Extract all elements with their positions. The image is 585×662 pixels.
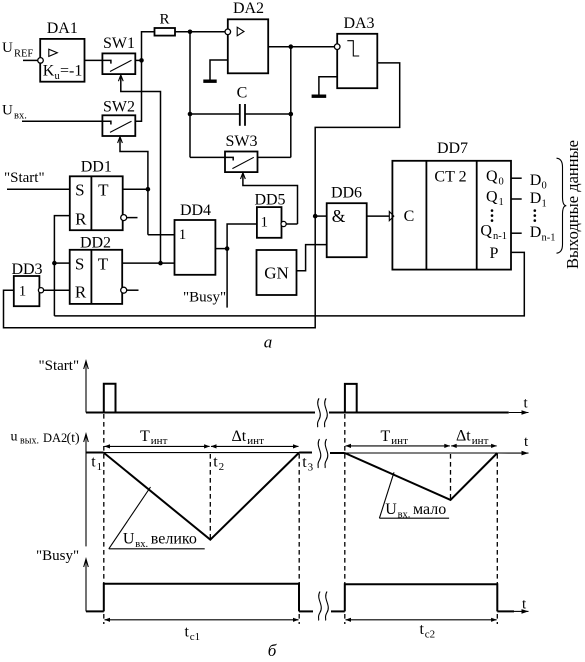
svg-text:T: T — [140, 428, 150, 445]
svg-text:"Start": "Start" — [4, 170, 45, 186]
Busy axis vertical — [85, 560, 87, 611]
wire DD1 T output to node E — [123, 188, 148, 190]
wire SW1 control from DD2 T output — [121, 76, 161, 264]
DD3 output inversion circle — [38, 288, 43, 293]
DD7 pin Qn-1 label — [480, 223, 507, 243]
svg-text:GN: GN — [264, 264, 289, 283]
SW2 contact stub — [102, 121, 111, 124]
SW3 blade diagonal — [232, 157, 253, 168]
DD7 ellipsis dots inside — [491, 209, 494, 222]
SW1 contact stub — [102, 60, 111, 63]
annotation underline veliko — [109, 548, 205, 550]
Start axis break symbol — [317, 398, 327, 427]
svg-text:DA3: DA3 — [343, 15, 374, 32]
svg-text:D: D — [530, 224, 542, 241]
svg-text:Выходные данные: Выходные данные — [563, 140, 582, 269]
u waveform triangle 1 (U_vx veliko) — [104, 453, 300, 540]
gate DD3 box — [14, 276, 40, 306]
wire node B down to capacitor C — [189, 32, 191, 158]
DD1 inverted output stub — [127, 217, 138, 219]
svg-text:SW1: SW1 — [103, 35, 135, 52]
Busy pulse 2 — [345, 584, 498, 611]
svg-text:Δt: Δt — [456, 428, 471, 445]
svg-text:3: 3 — [308, 462, 314, 474]
svg-text:C: C — [237, 85, 248, 102]
wire node C down to capacitor C — [290, 47, 292, 158]
Busy pulse 1 — [104, 584, 299, 612]
wire DD4 output to node H — [215, 248, 227, 250]
Start waveform baseline right — [329, 412, 509, 414]
wire DD1 R input from feedback bus — [54, 216, 69, 316]
dashed line t2 — [209, 454, 211, 540]
svg-text:DD6: DD6 — [331, 185, 362, 202]
svg-text:инт: инт — [247, 435, 264, 447]
dt_int label period 1 — [232, 428, 265, 447]
annotation U_vx veliko — [123, 531, 197, 550]
switch SW3 box — [225, 152, 258, 173]
wire SW2 control from DD1 T output — [120, 137, 148, 234]
svg-text:=-1: =-1 — [60, 62, 82, 79]
wire SW3 control from DD5 output — [243, 173, 298, 224]
time label t3 — [302, 454, 313, 474]
svg-text:D: D — [530, 190, 542, 207]
DA3 threshold symbol — [347, 41, 359, 56]
svg-text:R: R — [159, 12, 169, 28]
svg-text:S: S — [75, 254, 84, 273]
wire DA3 second input to ground — [319, 77, 337, 95]
svg-text:CT 2: CT 2 — [434, 168, 466, 185]
node H junction dot — [225, 246, 230, 251]
Busy baseline before pulse 2 — [331, 610, 345, 612]
wire Busy output stub — [226, 249, 228, 308]
DD1 divider — [90, 176, 92, 230]
node D junction dot on DA3 path — [313, 214, 318, 219]
svg-text:t: t — [213, 454, 218, 471]
svg-text:DD4: DD4 — [180, 202, 211, 219]
u waveform triangle 2 (U_vx malo) — [345, 453, 498, 500]
u axis vertical — [85, 435, 87, 546]
svg-text:R: R — [75, 209, 87, 228]
T_int measure arrow period 2 — [345, 444, 450, 448]
ground symbol at DA2 — [203, 79, 216, 82]
dt_int measure arrow period 1 — [211, 444, 299, 448]
op-amp DA2 box — [228, 19, 268, 73]
wire SW2 output up to node A — [135, 60, 141, 121]
svg-text:вх.: вх. — [14, 111, 27, 122]
wire SW3 to capacitor right — [258, 156, 291, 158]
node D0 label — [530, 172, 547, 192]
DA1 gain value label Ku=-1 — [43, 62, 83, 82]
svg-text:u: u — [11, 430, 18, 445]
svg-text:инт: инт — [391, 435, 408, 447]
t_c1 label — [185, 624, 201, 643]
wire U_REF to DA1 input — [23, 59, 38, 61]
svg-text:"Busy": "Busy" — [183, 290, 226, 306]
svg-text:а: а — [264, 333, 273, 352]
svg-text:велико: велико — [151, 531, 197, 548]
svg-text:DD7: DD7 — [437, 140, 468, 157]
u time axis thin line section 2 — [330, 452, 497, 454]
dashed line t5 — [450, 454, 452, 500]
wire Qn-1 output stub — [511, 232, 522, 234]
annotation U_vx malo — [385, 501, 446, 520]
time label t1 — [91, 454, 102, 474]
wire DD3 output to DD2 R input — [44, 289, 70, 291]
capacitor C right wire — [245, 113, 291, 115]
gate DD5 box — [257, 207, 282, 238]
amplifier U1 DA1 box — [40, 39, 84, 82]
svg-text:REF: REF — [14, 49, 33, 60]
svg-text:0: 0 — [499, 177, 504, 188]
svg-text:с2: с2 — [425, 628, 435, 640]
timing Start vertical axis — [85, 362, 87, 413]
Busy baseline left — [86, 610, 104, 612]
annotation underline malo — [379, 517, 449, 519]
gate DD4 box — [175, 220, 216, 275]
wire Q0 output stub — [511, 177, 522, 179]
svg-text:T: T — [98, 254, 109, 273]
wire node F to DD2 S input — [54, 262, 69, 264]
svg-text:мало: мало — [413, 501, 446, 518]
t_c1 measure arrow — [104, 618, 299, 622]
DA2 amplifier triangle symbol — [237, 27, 244, 36]
wire node D to DD6 input 1 — [315, 215, 327, 217]
u time axis line and arrow — [497, 451, 528, 456]
SW1 control arrow — [118, 75, 123, 81]
wire DD6 output to DD7 C input — [367, 215, 390, 217]
wire DA3 output to DD6 and DD3 feedback — [4, 63, 400, 328]
capacitor C left plate — [239, 104, 241, 126]
wire node E to DD4 input 1 — [148, 234, 175, 236]
svg-text:DA1: DA1 — [47, 20, 78, 37]
node U_REF label — [2, 40, 33, 60]
svg-text:U: U — [123, 531, 135, 548]
wire Q1 output stub — [511, 198, 522, 200]
Busy time axis arrow — [514, 609, 529, 614]
node G junction dot — [158, 261, 163, 266]
svg-text:C: C — [404, 208, 415, 225]
wire U_vx to SW2 — [22, 120, 102, 122]
svg-text:U: U — [2, 103, 13, 119]
svg-text:1: 1 — [19, 284, 27, 300]
DD1 inverted output circle — [121, 215, 127, 221]
svg-text:K: K — [43, 62, 55, 79]
u waveform zero after t3 — [299, 452, 312, 454]
switch SW2 box — [102, 115, 135, 136]
u time axis thin line section 1 — [86, 452, 312, 454]
flip-flop DD2 box — [70, 250, 123, 304]
ellipsis dots outputs — [534, 209, 537, 222]
dashed line t3 — [298, 454, 300, 624]
svg-text:0: 0 — [542, 180, 547, 191]
capacitor C left wire — [190, 113, 240, 115]
svg-text:&: & — [332, 206, 346, 226]
flip-flop DD1 box — [70, 176, 123, 230]
DA3 input inversion circle — [334, 44, 340, 50]
node E junction dot — [146, 187, 151, 192]
dashed line t1 — [103, 414, 105, 624]
wire capacitor left to SW3 — [190, 156, 225, 158]
DA2 input inversion circle — [225, 29, 231, 35]
svg-text:1: 1 — [97, 461, 103, 473]
svg-text:1: 1 — [260, 214, 268, 230]
DA1 amplifier triangle symbol — [49, 49, 58, 56]
wire DA1 output to SW1 — [85, 59, 103, 61]
svg-text:n-1: n-1 — [493, 231, 507, 242]
Busy axis arrowhead — [84, 559, 89, 567]
ground symbol at DA3 — [312, 94, 327, 97]
svg-text:с1: с1 — [190, 631, 200, 643]
svg-text:Q: Q — [480, 223, 492, 240]
svg-text:t: t — [302, 454, 307, 471]
svg-text:инт: инт — [151, 435, 168, 447]
svg-text:n-1: n-1 — [542, 233, 556, 244]
dashed line t4 — [344, 414, 346, 624]
T_int label period 2 — [381, 428, 409, 447]
dt_int label period 2 — [456, 428, 489, 447]
t_c2 measure arrow — [345, 618, 497, 622]
svg-text:DD5: DD5 — [254, 191, 285, 208]
capacitor C right plate — [244, 104, 246, 126]
svg-text:t: t — [91, 454, 96, 471]
switch SW1 box — [102, 53, 135, 74]
svg-text:t: t — [420, 621, 425, 638]
counter DD7 box — [392, 161, 511, 270]
u axis break symbol — [318, 439, 328, 468]
dt_int measure arrow period 2 — [451, 444, 497, 448]
node U_vx label — [2, 103, 27, 122]
svg-text:"Busy": "Busy" — [36, 548, 79, 564]
svg-text:DD1: DD1 — [81, 159, 112, 176]
svg-text:вых.: вых. — [20, 436, 39, 447]
node Dn-1 label — [530, 224, 556, 244]
resistor R body — [155, 28, 176, 36]
DD7 pin Q0 label — [486, 168, 504, 188]
DD7 dynamic input triangle — [389, 212, 394, 221]
svg-text:R: R — [75, 283, 87, 302]
comparator DA3 box — [337, 34, 377, 88]
dashed line t6 — [496, 454, 498, 624]
SW3 control arrow — [241, 173, 246, 179]
svg-text:D: D — [530, 172, 542, 189]
wire SW1 output to node A — [135, 59, 141, 61]
node D1 label — [530, 190, 547, 210]
wire DD5 output to SW3 control riser — [286, 223, 297, 225]
junction dot capacitor left — [188, 112, 193, 117]
DD2 inverted output circle — [121, 287, 127, 293]
output data brace — [557, 158, 567, 253]
svg-text:T: T — [381, 428, 391, 445]
T_int label period 1 — [140, 428, 168, 447]
wire R to DA2 input node B — [175, 31, 225, 33]
SW2 control arrow — [118, 137, 123, 143]
Start waveform baseline left — [86, 412, 315, 414]
u waveform zero before t4 — [330, 452, 345, 454]
wire node A up to resistor R — [142, 32, 155, 61]
Busy baseline right — [497, 610, 514, 612]
node F junction dot at DD2 S — [52, 261, 57, 266]
u_out DA2 axis label — [11, 430, 81, 447]
svg-text:U: U — [385, 501, 397, 518]
generator GN box — [257, 250, 297, 295]
junction dot capacitor right — [289, 112, 294, 117]
u waveform zero segment left — [86, 452, 104, 454]
DD7 divider 2 — [476, 161, 478, 270]
svg-text:б: б — [268, 641, 277, 660]
wire GN output to DD6 input 2 — [297, 245, 327, 271]
SW2 blade diagonal — [110, 121, 132, 132]
t_c2 label — [420, 621, 436, 640]
SW1 blade diagonal — [110, 60, 132, 71]
DA1 input inversion circle — [38, 58, 44, 64]
Busy baseline middle — [299, 610, 313, 612]
wire feedback bus from DD7 P output — [54, 252, 524, 316]
node B junction dot — [188, 30, 193, 35]
T_int measure arrow period 1 — [104, 444, 210, 448]
wire DA2 output to DA3 input — [268, 46, 334, 48]
node C junction dot at DA2 output — [289, 44, 294, 49]
svg-text:U: U — [2, 40, 13, 56]
Busy axis break symbol — [318, 592, 328, 621]
svg-text:Q: Q — [486, 168, 498, 185]
svg-text:Q: Q — [486, 189, 498, 206]
node A junction dot — [139, 58, 144, 63]
wire DA2 second input to ground — [210, 60, 228, 80]
svg-text:SW2: SW2 — [103, 99, 135, 116]
DD7 pin Q1 label — [486, 189, 504, 209]
DD5 output inversion circle — [281, 221, 286, 226]
svg-text:1: 1 — [179, 227, 187, 243]
Start axis arrowhead — [84, 361, 89, 369]
gate DD6 box — [327, 203, 367, 257]
svg-text:S: S — [75, 181, 84, 200]
SW3 contact stub — [225, 157, 233, 160]
u axis arrowhead — [84, 434, 89, 442]
Start pulse 2 — [345, 384, 357, 413]
svg-text:инт: инт — [472, 435, 489, 447]
annotation pointer line malo — [379, 472, 394, 518]
svg-text:1: 1 — [542, 199, 547, 210]
svg-text:(t): (t) — [67, 431, 81, 446]
DD2 inverted output stub — [127, 289, 139, 291]
Start pulse 1 — [104, 384, 116, 413]
svg-text:2: 2 — [219, 461, 225, 473]
svg-text:P: P — [490, 245, 499, 262]
DD2 divider — [90, 250, 92, 304]
wire DD2 T output to DD4 input 2 — [122, 262, 174, 264]
wire node H up to DD5 input — [227, 224, 257, 249]
wire Start to DD1 S input — [7, 188, 70, 190]
DD7 divider 1 — [425, 161, 427, 270]
Start time axis arrow — [509, 410, 529, 415]
annotation pointer line veliko — [109, 487, 151, 549]
svg-text:T: T — [98, 181, 109, 200]
svg-text:SW3: SW3 — [226, 133, 258, 150]
svg-text:DA2: DA2 — [233, 0, 264, 17]
svg-text:"Start": "Start" — [39, 358, 80, 374]
svg-text:Δt: Δt — [232, 428, 247, 445]
svg-text:1: 1 — [499, 197, 504, 208]
time label t2 — [213, 454, 224, 474]
svg-text:t: t — [185, 624, 190, 641]
svg-text:DA2: DA2 — [43, 431, 67, 445]
